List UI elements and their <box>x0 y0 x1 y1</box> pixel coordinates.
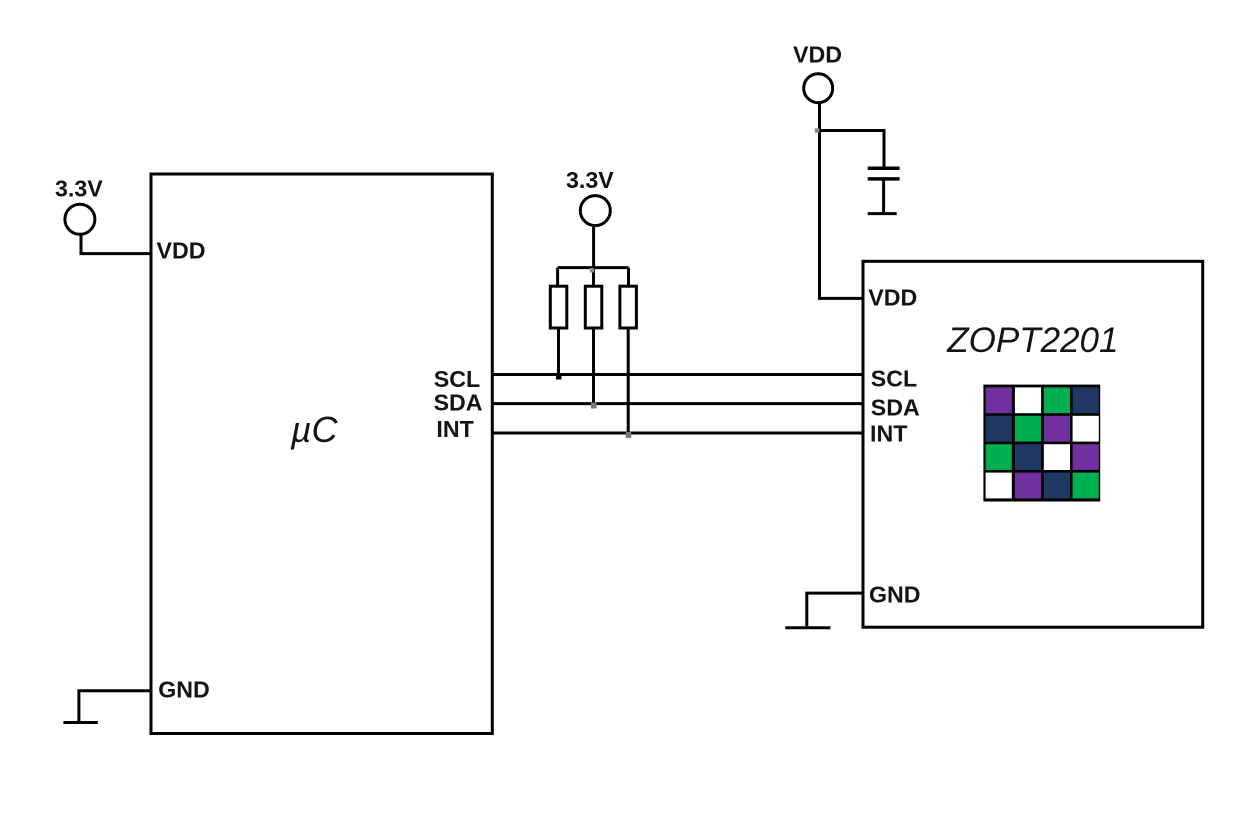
svg-text:VDD: VDD <box>793 42 842 68</box>
logo cell r2c2 green <box>1015 416 1041 442</box>
logo cell r4c3 navy <box>1044 473 1070 499</box>
capacitor C1 bottom plate <box>868 177 900 181</box>
svg-text:3.3V: 3.3V <box>566 167 614 193</box>
junction dot R1/SCL <box>556 374 562 380</box>
logo cell r3c4 purple <box>1073 444 1099 470</box>
wire: INT bus <box>492 432 863 435</box>
supply net VDD circle <box>804 74 833 103</box>
logo cell r4c1 white <box>986 473 1012 499</box>
logo cell r4c4 green <box>1073 473 1099 499</box>
svg-text:µC: µC <box>290 409 339 450</box>
supply net 3.3V left circle <box>65 204 95 234</box>
ground symbol left bar <box>63 721 97 724</box>
capacitor C1 top plate <box>868 166 900 170</box>
logo cell r3c3 white <box>1044 444 1070 470</box>
logo cell r1c3 green <box>1044 387 1070 413</box>
svg-text:ZOPT2201: ZOPT2201 <box>946 321 1118 360</box>
logo cell r3c1 green <box>986 444 1012 470</box>
svg-text:SDA: SDA <box>434 389 483 415</box>
wire: ZOPT2201 GND to ground <box>807 593 863 626</box>
logo cell r2c3 purple <box>1044 416 1070 442</box>
logo cell r4c2 purple <box>1015 473 1041 499</box>
resistor R1 body (SCL pull-up) <box>550 286 567 328</box>
wire: 3.3V stub to uC VDD <box>81 235 151 254</box>
wire: branch to capacitor C1 <box>820 131 885 167</box>
ground symbol right bar <box>785 626 830 629</box>
svg-text:3.3V: 3.3V <box>55 176 103 202</box>
wire: VDD down to ZOPT2201 VDD pin <box>820 103 863 299</box>
resistor R2 body (SDA pull-up) <box>585 286 602 328</box>
logo cell r2c4 white <box>1073 416 1099 442</box>
svg-text:INT: INT <box>870 421 907 447</box>
logo cell r1c4 navy <box>1073 387 1099 413</box>
resistor R2 bottom lead to SDA <box>592 328 595 404</box>
wire: pull-up rail bar <box>558 266 629 269</box>
capacitor C1 bottom lead <box>882 181 885 213</box>
svg-text:SCL: SCL <box>871 366 917 392</box>
wire: uC GND to ground <box>79 691 151 721</box>
block U2 ZOPT2201 box <box>863 261 1203 627</box>
svg-text:GND: GND <box>158 677 210 703</box>
svg-text:VDD: VDD <box>157 238 206 264</box>
svg-text:GND: GND <box>869 582 921 608</box>
logo cell r1c2 white <box>1015 387 1041 413</box>
resistor R1 top lead <box>556 268 559 287</box>
svg-text:INT: INT <box>436 416 473 442</box>
junction dot rail/R2 <box>590 268 595 273</box>
resistor R1 bottom lead to SCL <box>557 328 560 375</box>
svg-text:SCL: SCL <box>434 366 480 392</box>
junction dot R3/INT <box>626 432 632 438</box>
resistor R3 bottom lead to INT <box>627 328 630 433</box>
logo cell r2c1 navy <box>986 416 1012 442</box>
resistor R3 body (INT pull-up) <box>620 286 637 328</box>
logo cell r3c2 navy <box>1015 444 1041 470</box>
IDT logo grid background <box>983 385 1100 502</box>
supply net 3.3V middle circle <box>580 196 610 226</box>
resistor R3 top lead <box>627 268 630 287</box>
svg-text:VDD: VDD <box>868 285 917 311</box>
wire: SCL bus <box>492 373 863 376</box>
resistor R2 top lead <box>592 268 595 287</box>
block U1 microcontroller box <box>151 174 492 734</box>
junction dot VDD/cap branch <box>815 128 820 133</box>
junction dot R2/SDA <box>591 403 597 409</box>
wire: 3.3V to pull-up rail <box>592 226 595 268</box>
ground bar under capacitor <box>868 212 897 215</box>
svg-text:SDA: SDA <box>871 395 920 421</box>
wire: SDA bus <box>492 402 863 405</box>
logo cell r1c1 purple <box>986 387 1012 413</box>
